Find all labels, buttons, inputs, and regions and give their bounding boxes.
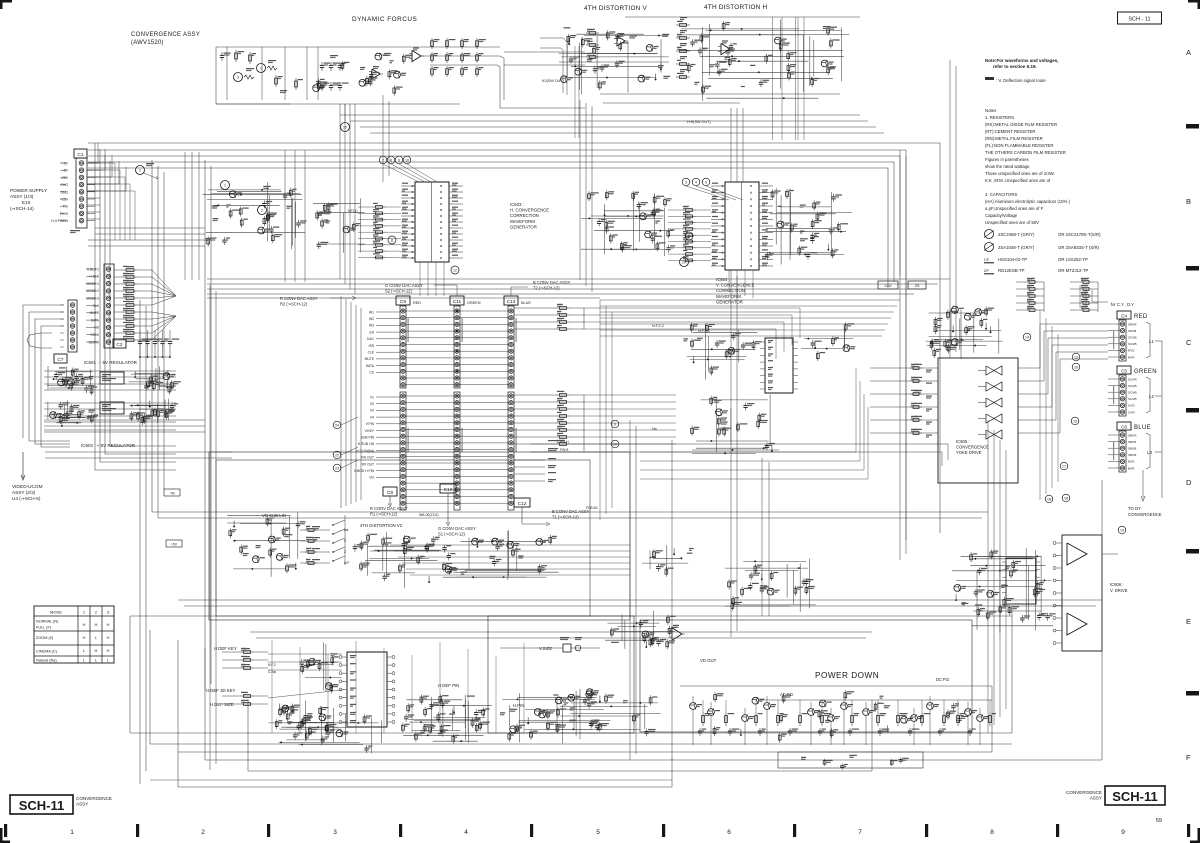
svg-text:18: 18 [1064,496,1068,500]
svg-text:9: 9 [614,422,616,426]
svg-text:CONVERGENCE ASSY: CONVERGENCE ASSY [131,32,200,38]
svg-text:15: 15 [1073,419,1077,423]
svg-text:H.PIN: H.PIN [513,703,524,708]
svg-text:/25: /25 [915,284,920,288]
svg-text:P.D: P.D [63,205,69,209]
svg-text:WAVEFORM: WAVEFORM [510,219,535,224]
svg-text:4TH DISTORTION H: 4TH DISTORTION H [704,4,768,11]
svg-text:G CONV DAC ASSY: G CONV DAC ASSY [438,526,476,531]
svg-text:CHG: CHG [60,183,68,187]
svg-text:SBVB: SBVB [1128,440,1136,444]
svg-text:3: 3 [333,829,337,836]
svg-text:1: 1 [70,829,74,836]
svg-text:V1: V1 [370,395,374,399]
svg-text:DYNAMIC FORCUS: DYNAMIC FORCUS [352,16,417,23]
svg-text:YOKE DRIVE: YOKE DRIVE [956,450,982,455]
svg-text:V4: V4 [370,415,374,419]
svg-text:C6: C6 [1121,424,1127,429]
svg-text:E10: E10 [22,200,31,205]
svg-text:ZF: ZF [984,268,989,273]
svg-text:SGVB: SGVB [1128,391,1137,395]
svg-text:V2: V2 [370,402,374,406]
svg-text:PCB.B3: PCB.B3 [586,506,598,510]
svg-text:SRVB: SRVB [1128,329,1136,333]
svg-text:5: 5 [705,180,707,184]
svg-text:+5V: +5V [62,162,69,166]
svg-text:MODE 1: MODE 1 [86,282,99,286]
svg-text:IC603 :: IC603 : [510,202,524,207]
svg-text:1: 1 [224,183,226,187]
svg-text:17: 17 [1062,464,1066,468]
svg-text:C13: C13 [507,299,516,305]
svg-text:59: 59 [1156,818,1162,824]
svg-text:GREEN: GREEN [1134,369,1157,375]
svg-text:6: 6 [727,829,731,836]
svg-text:4: 4 [695,180,697,184]
svg-text:SDATA: SDATA [88,340,99,344]
svg-text:IC601 : - 5V REGULATOR: IC601 : - 5V REGULATOR [84,360,138,365]
svg-text:TO DY: TO DY [1128,506,1141,511]
svg-text:POWER SUPPLY: POWER SUPPLY [10,188,48,193]
svg-text:23: 23 [335,466,339,470]
svg-text:SGVB: SGVB [1128,336,1137,340]
svg-text:2: 2 [260,67,262,71]
svg-text:H DEF KEY: H DEF KEY [214,646,237,651]
svg-text:U4 (⇒SCH-6): U4 (⇒SCH-6) [12,496,41,501]
svg-text:-5V: -5V [63,169,69,173]
svg-text:CLK: CLK [368,351,375,355]
svg-text:DAC: DAC [367,337,375,341]
svg-text:24: 24 [335,423,339,427]
svg-text:ASSY: ASSY [76,802,88,807]
svg-text:BLUE: BLUE [521,301,531,305]
svg-text:H.V.PWDN: H.V.PWDN [51,219,68,223]
svg-text:V.SIZE: V.SIZE [539,646,552,651]
svg-text:14: 14 [1025,335,1029,339]
svg-text:CONVERGENCE: CONVERGENCE [76,796,112,801]
svg-text:CF: CF [984,257,990,262]
svg-text:Note:For waveforms and voltage: Note:For waveforms and voltages, [985,58,1059,63]
svg-text:ASSY (2/2): ASSY (2/2) [12,490,36,495]
svg-text:2: 2 [261,208,263,212]
svg-text:+5V: +5V [171,543,178,547]
svg-text:1. RESISTERS: 1. RESISTERS [985,115,1014,120]
svg-text:C1: C1 [77,152,83,158]
svg-text:C: C [1186,338,1192,347]
svg-text:GVD: GVD [1128,404,1135,408]
svg-text:IC605 :: IC605 : [956,439,970,444]
svg-text:THE OTHERS CARBON FILM RESISTE: THE OTHERS CARBON FILM RESISTER [985,150,1066,155]
svg-text:ZOOM (Z): ZOOM (Z) [36,636,54,640]
svg-text:Notes: Notes [985,108,996,113]
svg-text:DC P.D: DC P.D [936,677,949,682]
svg-text:VD OUT: VD OUT [700,658,717,663]
svg-text:SGVB: SGVB [1128,342,1137,346]
svg-text:H DEF SIZE: H DEF SIZE [210,702,234,707]
svg-text:SGVB: SGVB [1128,397,1137,401]
svg-text:(RN):METAL FILM RESISTER: (RN):METAL FILM RESISTER [985,136,1043,141]
svg-text:SBVB: SBVB [1128,453,1136,457]
svg-text:SCH - 11: SCH - 11 [1128,17,1150,23]
svg-text:S1 (⇒SCH-12): S1 (⇒SCH-12) [438,532,465,537]
svg-text:RH OUT: RH OUT [361,456,374,460]
svg-text:H: H [107,635,110,640]
svg-text:K:K ,M:M ,Unspecified ones are: K:K ,M:M ,Unspecified ones are of [985,178,1051,183]
svg-text:GREEN: GREEN [467,301,481,305]
svg-text:Na: Na [344,528,348,532]
svg-text:H: H [83,635,86,640]
svg-text:C11: C11 [453,299,462,305]
svg-text:RED: RED [413,301,421,305]
svg-text:MT3 (): MT3 () [348,209,357,213]
svg-text:H: H [107,648,110,653]
svg-text:8: 8 [990,829,994,836]
svg-text:: V. Deflection signal route: : V. Deflection signal route [996,78,1046,83]
svg-text:GENERATOR: GENERATOR [510,224,537,229]
svg-text:E: E [1186,617,1191,626]
svg-text:(RS):METAL OXIDE FILM RESISTER: (RS):METAL OXIDE FILM RESISTER [985,122,1057,127]
svg-text:C5: C5 [1121,368,1127,373]
svg-text:11: 11 [390,238,394,242]
svg-text:F: F [1186,753,1191,762]
svg-text:H. CONVERGENCE: H. CONVERGENCE [510,208,549,213]
svg-text:6: 6 [688,234,690,238]
svg-text:IC602 : + 5V REGULATOR: IC602 : + 5V REGULATOR [81,443,136,448]
svg-text:W1: W1 [369,310,374,314]
svg-text:V3: V3 [370,409,374,413]
svg-text:V. DRIVE: V. DRIVE [1110,588,1128,593]
svg-text:H: H [95,622,98,627]
svg-text:Those unspecified ones are of: Those unspecified ones are of 1/4W. [985,171,1055,176]
svg-text:OR MTZJ12-TP: OR MTZJ12-TP [1058,268,1088,273]
svg-text:H: H [95,648,98,653]
svg-text:VG: VG [369,476,374,480]
svg-text:RV OUT: RV OUT [362,462,374,466]
svg-text:4TH DISTORTION V2: 4TH DISTORTION V2 [360,523,403,528]
svg-text:3: 3 [237,76,239,80]
svg-text:-7B: -7B [169,492,175,496]
svg-text:V.PIN: V.PIN [366,422,375,426]
svg-text:a pF,Unspecified ones are of F: a pF,Unspecified ones are of F [985,206,1044,211]
svg-text:19: 19 [1120,528,1124,532]
svg-text:OR 2SA933S-T (S/R): OR 2SA933S-T (S/R) [1058,245,1100,250]
svg-text:BVD: BVD [1128,460,1135,464]
svg-text:OR 2SC2178S-T(S/R): OR 2SC2178S-T(S/R) [1058,232,1101,237]
svg-text:MODE 2: MODE 2 [86,289,99,293]
svg-text:(FL):NON FLAMMABLE RESISTER: (FL):NON FLAMMABLE RESISTER [985,143,1054,148]
svg-text:4TH DISTORTION V: 4TH DISTORTION V [584,5,648,12]
svg-text:H DEF 3D KEY: H DEF 3D KEY [206,688,236,693]
svg-text:SUB PIN: SUB PIN [361,436,375,440]
svg-text:GVR: GVR [1128,410,1135,414]
svg-text:IC606 :: IC606 : [1110,582,1124,587]
svg-text:CONVERGENCE: CONVERGENCE [1066,790,1102,795]
svg-text:WAVEFORM: WAVEFORM [716,294,741,299]
svg-text:H: H [83,622,86,627]
svg-text:SGVR: SGVR [1128,377,1138,381]
svg-text:IC604 :: IC604 : [716,277,730,282]
svg-text:Natural (Na): Natural (Na) [36,659,57,663]
svg-text:(HA) Aluminum electrolytic cap: (HA) Aluminum electrolytic capacitors (1… [985,199,1071,204]
svg-text:D: D [1186,478,1192,487]
svg-text:SRVR: SRVR [1128,322,1137,326]
svg-text:SGVB: SGVB [1128,384,1137,388]
svg-text:P.K.S: P.K.S [60,212,69,216]
svg-text:10: 10 [613,442,617,446]
svg-text:R2 (⇒SCH-12): R2 (⇒SCH-12) [280,302,308,307]
svg-text:for C.Y , D.Y: for C.Y , D.Y [1111,302,1134,307]
svg-text:22: 22 [335,453,339,457]
svg-text:H SUB LIN: H SUB LIN [358,442,375,446]
svg-text:N.F.Z.C: N.F.Z.C [652,324,665,328]
svg-text:16: 16 [1074,365,1078,369]
svg-text:B: B [1186,197,1191,206]
svg-text:BLUE: BLUE [1134,425,1151,431]
svg-text:SCH-11: SCH-11 [1112,789,1158,804]
svg-text:RED: RED [1134,314,1148,320]
svg-text:(AWV1520): (AWV1520) [131,40,164,46]
svg-text:CORRECTION: CORRECTION [510,213,539,218]
svg-text:show the rated wattage.: show the rated wattage. [985,164,1031,169]
svg-text:2: 2 [201,829,205,836]
svg-text:CINEMA (C): CINEMA (C) [36,650,58,654]
svg-text:DATA: DATA [366,364,375,368]
svg-text:PIN.B: PIN.B [560,448,568,452]
svg-text:CLK: CLK [93,304,100,308]
svg-text:GND: GND [60,190,68,194]
svg-text:2. CAPACITORS: 2. CAPACITORS [985,192,1017,197]
svg-text:V. CONVERGENCE: V. CONVERGENCE [716,283,755,288]
svg-text:L3: L3 [1147,450,1152,455]
svg-text:Figures in parentheses: Figures in parentheses [985,157,1029,162]
svg-text:(⇒SCH-14): (⇒SCH-14) [10,206,34,211]
svg-text:-25V: -25V [61,176,69,180]
svg-text:SBVB: SBVB [1128,447,1136,451]
svg-text:H BLK: H BLK [89,275,99,279]
svg-text:MODE: MODE [50,610,62,615]
svg-text:18: 18 [1047,497,1051,501]
svg-text:L2: L2 [1149,394,1154,399]
svg-text:C8: C8 [387,490,393,496]
svg-text:CS: CS [369,371,374,375]
svg-text:W3: W3 [369,324,374,328]
svg-text:WA.00(13.6): WA.00(13.6) [419,513,439,517]
svg-text:A: A [1186,48,1191,57]
svg-text:H DEF PIN: H DEF PIN [438,683,459,688]
svg-text:SCH-11: SCH-11 [19,798,65,813]
svg-text:refer to section 5.19.: refer to section 5.19. [993,64,1037,69]
svg-text:Unspecified ones are of 50V: Unspecified ones are of 50V [985,220,1039,225]
svg-text:HSS104-02-TP: HSS104-02-TP [998,257,1027,262]
svg-text:NORMAL (N): NORMAL (N) [36,620,59,624]
svg-text:R CONV DAC ASSY: R CONV DAC ASSY [370,506,408,511]
svg-text:OR 1SS252-TP: OR 1SS252-TP [1058,257,1088,262]
svg-text:H:R(SW OUT): H:R(SW OUT) [687,120,711,124]
svg-text:+25V: +25V [60,198,69,202]
svg-text:C2: C2 [116,342,122,348]
svg-text:3: 3 [685,180,687,184]
svg-text:12: 12 [453,268,457,272]
svg-text:Na: Na [652,427,657,431]
svg-text:C12: C12 [518,501,527,507]
svg-text:BVR: BVR [1128,466,1135,470]
svg-text:H.S.LIN(Na): H.S.LIN(Na) [356,449,374,453]
svg-text:T1 (⇒SCH-12): T1 (⇒SCH-12) [552,515,579,520]
svg-text:2SC2458-T (GR/Y): 2SC2458-T (GR/Y) [998,232,1035,237]
svg-text:T2 (⇒SCH-12): T2 (⇒SCH-12) [533,286,560,291]
svg-text:H BLK 2: H BLK 2 [87,267,99,271]
svg-text:VIDEO-UCOM: VIDEO-UCOM [12,484,43,489]
svg-text:7: 7 [858,829,862,836]
svg-text:4: 4 [464,829,468,836]
svg-text:V.KEY: V.KEY [365,429,375,433]
svg-text:C9: C9 [400,299,406,305]
svg-text:L1: L1 [1149,339,1154,344]
svg-text:/SR: /SR [369,344,375,348]
svg-text:2SA1048-T (GR/Y): 2SA1048-T (GR/Y) [998,245,1035,250]
svg-text:Capacity/Voltage: Capacity/Voltage [985,213,1018,218]
svg-text:ASSY (1/3): ASSY (1/3) [10,194,34,199]
svg-text:CONVERGENCE: CONVERGENCE [956,445,989,450]
svg-text:RVR: RVR [1128,355,1135,359]
svg-text:/LR: /LR [369,330,375,334]
svg-text:H: H [107,622,110,627]
svg-text:CONVERGENCE: CONVERGENCE [1128,512,1162,517]
svg-text:C7: C7 [57,357,63,363]
svg-text:PIN.H: PIN.H [560,440,569,444]
svg-text:W2: W2 [369,317,374,321]
svg-text:(RT):CEMENT RESISTER: (RT):CEMENT RESISTER [985,129,1035,134]
svg-text:B CONV DAC ASSY: B CONV DAC ASSY [552,509,590,514]
svg-text:FULL (F): FULL (F) [36,626,52,630]
svg-text:9: 9 [1121,829,1125,836]
svg-text:MODE 3: MODE 3 [86,297,99,301]
svg-text:V.MOD H PIN: V.MOD H PIN [354,469,375,473]
svg-text:RD12ESB-TP: RD12ESB-TP [998,268,1025,273]
svg-text:POWER DOWN: POWER DOWN [815,671,879,680]
svg-text:C4: C4 [1121,313,1127,318]
svg-text:MUTE: MUTE [365,357,375,361]
svg-text:R CONV DAC ASSY: R CONV DAC ASSY [280,296,318,301]
svg-text:5: 5 [596,829,600,836]
svg-text:RVD: RVD [1128,349,1135,353]
svg-text:2: 2 [139,169,141,173]
svg-text:ASSY: ASSY [1090,796,1102,801]
svg-text:SBVR: SBVR [1128,433,1137,437]
